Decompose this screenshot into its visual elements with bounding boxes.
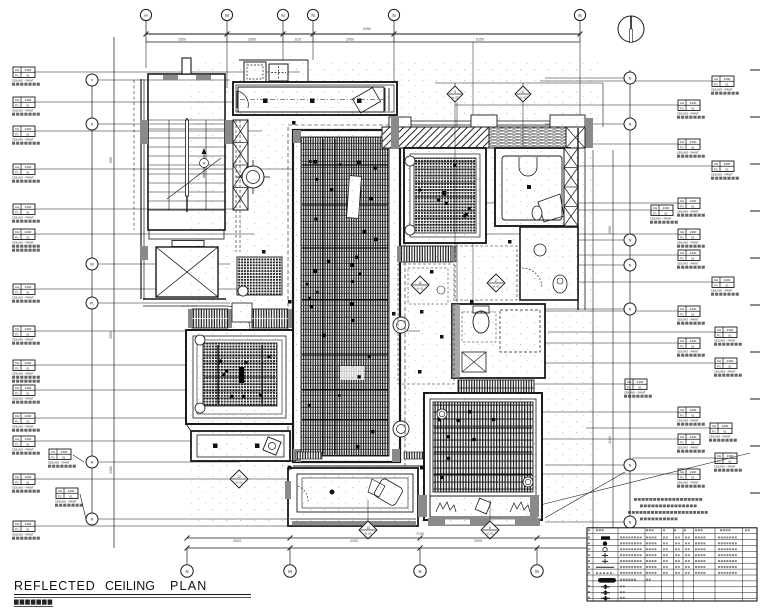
svg-text:CEILING - PAINT: CEILING - PAINT [677,209,699,213]
right vertical leader line [629,70,631,530]
ceiling fan symbol foyer [242,166,264,188]
svg-text:P1: P1 [627,385,631,389]
svg-text:2400: 2400 [25,361,32,365]
svg-text:N: N [629,77,632,81]
ceiling callout right y=338 [678,338,700,349]
scattered downlights [292,121,296,125]
svg-text:CEILING - PAINT: CEILING - PAINT [677,445,699,449]
diagonal leader lines to right callouts [540,453,750,505]
left vertical dim line 1 [91,74,93,522]
svg-text:2400: 2400 [690,339,697,343]
svg-text:CEILING - PAINT: CEILING - PAINT [714,369,736,373]
ceiling callout right y=469 [678,469,700,480]
misc dashed ceiling lines open hall [398,264,454,384]
svg-text:CH: CH [15,285,19,289]
balcony plants left [436,502,456,512]
svg-text:N: N [629,264,632,268]
diamond symbol VL-02 at 490,530 [481,521,499,539]
study door arc left [298,486,308,502]
closet comb below bathroom4 [458,380,534,396]
bedroom2 ceiling hatch [414,158,476,233]
bedroom1 ceiling hatch [203,343,277,406]
svg-text:01: 01 [26,527,30,531]
ceiling callout left y=126 [13,126,35,137]
svg-text:P1: P1 [15,210,19,214]
left leader circle PL y=303 [86,297,98,309]
svg-text:N: N [392,13,395,18]
svg-text:P1: P1 [680,312,684,316]
open hall dashed lines mid [455,246,517,300]
corridor below stair [149,230,224,239]
svg-text:2400: 2400 [68,489,75,493]
grid bubble N x=580 [574,9,585,20]
svg-text:P1: P1 [680,344,684,348]
x-strip right of bath2 [564,148,578,226]
bedroom3 hatch divisions [434,427,532,429]
svg-text:CH: CH [680,140,684,144]
leader bracket line above bedrooms [435,82,603,84]
svg-text:01: 01 [638,385,642,389]
svg-text:P1: P1 [714,283,718,287]
bedroom2 outer wall [404,148,486,243]
svg-text:CEILING: CEILING [105,579,155,593]
svg-text:CEILING - PAINT: CEILING - PAINT [711,288,733,292]
svg-text:N: N [281,13,284,18]
kitchen strip dashed centerline [240,99,384,101]
table lamp symbols bottom rows [588,585,590,587]
living bottom comb marks left [296,452,322,459]
bath2 inner rounded border [502,156,562,220]
svg-text:CH: CH [680,101,684,105]
svg-text:01: 01 [26,210,30,214]
gray jambs bedroom3 [418,495,427,517]
svg-text:01: 01 [26,366,30,370]
svg-text:P1: P1 [15,332,19,336]
study left gray jamb [285,481,291,499]
svg-text:P1: P1 [15,235,19,239]
svg-text:CH: CH [717,359,721,363]
kitchen right end bars [384,88,386,111]
svg-text:2400: 2400 [25,127,32,131]
svg-text:CH: CH [717,328,721,332]
svg-text:P1: P1 [717,364,721,368]
svg-text:P1: P1 [717,333,721,337]
kitchen door arc left [237,91,248,108]
svg-text:P1: P1 [51,455,55,459]
svg-text:2850: 2850 [248,38,256,42]
ceiling callout left y=284 [13,284,35,295]
ceiling callout right y=161 [712,161,734,172]
svg-text:01: 01 [26,332,30,336]
ceiling callout right y=306 [678,306,700,317]
ceiling callout right y=327 [715,327,737,338]
svg-text:CH: CH [15,475,19,479]
svg-text:CH: CH [680,251,684,255]
svg-text:2400: 2400 [722,424,729,428]
svg-text:01: 01 [728,459,732,463]
svg-text:P1: P1 [15,480,19,484]
svg-text:P1: P1 [680,475,684,479]
svg-text:01: 01 [691,256,695,260]
svg-text:1380: 1380 [109,466,113,474]
svg-text:P1: P1 [680,440,684,444]
stair direction diagonal with arrow [167,158,221,199]
svg-text:REFLECTED: REFLECTED [14,579,96,593]
svg-text:01: 01 [26,480,30,484]
svg-text:CEILING - PAINT: CEILING - PAINT [12,240,34,244]
entry door arc [226,306,250,330]
ceiling callout right y=139 [678,139,700,150]
svg-text:CEILING - PAINT: CEILING - PAINT [55,499,77,503]
left leader circle W y=264 [86,258,98,270]
svg-text:01: 01 [691,344,695,348]
living bottom comb marks right [404,452,430,459]
bedroom1 inner border [193,336,286,418]
bedroom1 hatch row lines [204,348,276,350]
bedroom3 outer wall [424,393,542,520]
kitchen downlight squares [263,99,268,104]
bedroom3 ceiling hatch [433,402,533,492]
notes text block right [634,498,637,501]
title underline double [14,594,251,596]
ceiling callout right y=198 [678,198,700,209]
svg-text:2400: 2400 [690,140,697,144]
svg-text:P1: P1 [58,494,62,498]
wardrobe comb left [192,309,228,328]
svg-text:CEILING - PAINT: CEILING - PAINT [677,240,699,244]
ceiling callout left y=229 [13,229,35,240]
svg-text:CH: CH [51,450,55,454]
right leader circle N y=309 [624,303,636,315]
svg-text:01: 01 [664,211,668,215]
svg-text:CEILING - PAINT: CEILING - PAINT [12,337,34,341]
hallway ceiling trough [191,431,290,461]
ceiling callout left y=436 [13,436,35,447]
living room corner wall poche [293,130,301,143]
left leader circle N y=519 [86,513,98,525]
svg-text:1160: 1160 [608,436,612,444]
svg-text:CH: CH [712,424,716,428]
svg-text:CEILING - PAINT: CEILING - PAINT [12,396,34,400]
dim tick [578,32,583,37]
right outer wall top block [577,128,579,310]
svg-text:CH: CH [15,98,19,102]
bathroom4 left gray wall [452,304,460,378]
ceiling callout left y=97 [13,97,35,108]
svg-text:CEILING - PAINT: CEILING - PAINT [624,390,646,394]
ceiling callout right y=277 [712,277,734,288]
svg-text:CEILING - PAINT: CEILING - PAINT [12,108,34,112]
svg-text:3300: 3300 [233,539,241,543]
svg-text:P1: P1 [712,429,716,433]
svg-text:P1: P1 [680,145,684,149]
svg-text:CEILING - PAINT: CEILING - PAINT [677,111,699,115]
svg-text:2400: 2400 [724,162,731,166]
table header marks [588,529,590,531]
ceiling callout right y=229 [678,229,700,240]
living hatch inner beam lines [322,139,324,454]
svg-text:CEILING - PAINT: CEILING - PAINT [714,338,736,342]
study desk rotated shapes [373,477,404,506]
svg-text:CH: CH [680,339,684,343]
shaft x-strip right of stair [233,120,248,210]
svg-text:01: 01 [26,442,30,446]
balcony strip bedroom3 [430,496,537,517]
svg-text:CEILING - PAINT: CEILING - PAINT [12,175,34,179]
svg-text:01: 01 [26,103,30,107]
left leader circle K y=124 [86,118,98,130]
bath3 sink circle [534,244,546,256]
ceiling callout left y=385 [13,385,35,396]
top dimension line [146,33,580,35]
dashed ceiling outline around living [288,125,405,466]
svg-text:CH: CH [15,327,19,331]
dim tick [281,32,286,37]
living hatch white slot detail [347,176,362,219]
svg-text:CH: CH [680,199,684,203]
north arrow symbol [618,16,644,42]
svg-text:01: 01 [69,494,73,498]
svg-text:VL-01: VL-01 [365,532,372,536]
bottom dimension lines [187,537,660,539]
ceiling callout right y=423 [710,423,732,434]
left vertical dim line 2 [113,37,115,548]
dim tick [144,32,149,37]
svg-text:CH: CH [15,127,19,131]
fan symbol living right upper [393,317,409,333]
top small room B with cross [269,64,288,81]
bath3 walls [520,227,578,300]
living room outer wall [293,130,400,462]
wall band diagonal hatch left part [382,127,489,148]
svg-text:2950: 2950 [346,38,354,42]
svg-text:2400: 2400 [25,522,32,526]
svg-text:2400: 2400 [25,98,32,102]
diamond symbol VL-02 at 455,94 [447,86,463,102]
ceiling callout left y=474 [13,474,35,485]
bedroom2 center black square [442,191,447,196]
bedroom1 corner circles [195,335,205,345]
svg-text:890: 890 [109,157,113,163]
hallway downlights [213,444,218,449]
table dark pill legend [598,578,616,583]
svg-text:CH: CH [15,386,19,390]
svg-text:N: N [91,461,94,465]
svg-text:2400: 2400 [25,165,32,169]
stair landing [148,210,225,230]
svg-text:N: N [91,518,94,522]
elevator shaft box [156,247,218,297]
bedroom1 outer wall [186,330,293,424]
svg-text:P1: P1 [680,235,684,239]
svg-text:2400: 2400 [25,230,32,234]
right leader circle N y=465 [624,459,636,471]
bedroom3 fan circle bottom-right [523,477,533,487]
foyer ceiling hatch [237,257,282,295]
svg-text:CH: CH [15,205,19,209]
bedroom2 comb wardrobe below [401,246,453,262]
svg-text:01: 01 [26,73,30,77]
study bottom window band [290,518,416,520]
kitchen rotated counter shape [353,88,381,113]
svg-text:CEILING - PAINT: CEILING - PAINT [677,261,699,265]
ceiling callout left y=413 [13,413,35,424]
svg-text:CEILING - PAINT: CEILING - PAINT [709,434,731,438]
svg-text:01: 01 [691,312,695,316]
stair top chimney bump [182,58,191,74]
ceiling callout right y=407 [678,407,700,418]
svg-text:N: N [185,569,188,574]
svg-text:2400: 2400 [690,199,697,203]
ceiling callout right y=358 [715,358,737,369]
svg-text:7150: 7150 [416,532,424,536]
svg-text:2400: 2400 [25,414,32,418]
bath2 outer wall [495,148,570,226]
grid bubble H x=146 [140,9,151,20]
svg-text:01: 01 [26,419,30,423]
svg-text:2400: 2400 [637,380,644,384]
svg-text:CEILING - PAINT: CEILING - PAINT [48,460,70,464]
ceiling callout right y=100 [678,100,700,111]
ceiling callout left y=326 [13,326,35,337]
kitchen-balcony strip outer [233,82,397,115]
ceiling callout left y=164 [13,164,35,175]
bath3 door arc [522,268,542,288]
dim tick [311,32,316,37]
ceiling callout right y=379 [625,379,647,390]
dim tick [225,32,230,37]
svg-text:N: N [418,569,421,574]
svg-text:01: 01 [691,235,695,239]
svg-text:W: W [90,263,94,267]
svg-text:N: N [629,521,632,525]
svg-text:2400: 2400 [724,77,731,81]
svg-text:1580: 1580 [608,226,612,234]
svg-text:01: 01 [26,132,30,136]
svg-text:CH: CH [680,470,684,474]
svg-text:VL-02: VL-02 [487,532,494,536]
svg-text:2400: 2400 [25,475,32,479]
svg-text:CEILING - PAINT: CEILING - PAINT [12,447,34,451]
svg-text:2400: 2400 [25,437,32,441]
svg-text:2400: 2400 [690,307,697,311]
svg-text:4550: 4550 [109,331,113,339]
wall below elevator [143,298,226,300]
svg-text:01: 01 [691,413,695,417]
svg-text:CEILING - PAINT: CEILING - PAINT [12,295,34,299]
svg-text:P1: P1 [15,442,19,446]
sheet edge tick marks right [750,69,760,71]
svg-text:CH: CH [627,380,631,384]
svg-text:N: N [578,13,581,18]
ceiling callout left y=360 [13,360,35,371]
svg-text:CH: CH [15,230,19,234]
ceiling callout left y=204 [13,204,35,215]
svg-text:CH: CH [714,162,718,166]
svg-text:CH: CH [15,414,19,418]
svg-text:6950: 6950 [363,27,371,31]
diamond symbol VL-02 at 523,94 [515,86,531,102]
living hatch horizontal divisions [302,164,388,166]
svg-text:CH: CH [714,278,718,282]
svg-text:M: M [225,13,229,18]
stair handrail bar [186,120,189,196]
svg-text:01: 01 [728,364,732,368]
corridor dashed lines [235,120,237,252]
grid bubble N x=394 [388,9,399,20]
svg-text:CH: CH [680,435,684,439]
svg-text:P1: P1 [15,527,19,531]
svg-text:01: 01 [691,145,695,149]
stair top wall gray caps [163,75,178,80]
dim tick [392,32,397,37]
svg-text:CH: CH [680,230,684,234]
living hatch white patch [340,366,364,380]
svg-text:01: 01 [723,429,727,433]
wall band gray jambs [391,118,399,148]
svg-text:01: 01 [691,106,695,110]
lintel boxes above wall band [389,117,411,127]
bedroom2 corner circles [405,156,415,166]
svg-text:CEILING - PAINT: CEILING - PAINT [12,78,34,82]
svg-text:01: 01 [725,167,729,171]
ceiling callout left y=67 [13,67,35,78]
svg-text:PLAN: PLAN [170,579,207,593]
svg-text:P1: P1 [680,413,684,417]
diamond symbol VL-01 at 368,530 [359,521,377,539]
fan symbol living right lower [393,421,409,437]
svg-text:N: N [311,13,314,18]
grid bubble N x=313 [307,9,318,20]
svg-text:CEILING - PAINT: CEILING - PAINT [714,464,736,468]
svg-text:2400: 2400 [690,101,697,105]
svg-text:01: 01 [26,235,30,239]
bedroom1 hatch dark clumps [242,395,245,398]
svg-text:H: H [144,13,147,18]
svg-text:CEILING - PAINT: CEILING - PAINT [12,371,34,375]
bath2 toilet [532,206,542,220]
svg-text:2400: 2400 [25,68,32,72]
balcony plants right [510,502,530,512]
svg-text:2400: 2400 [724,278,731,282]
svg-text:Y: Y [91,79,94,83]
diamond symbol VL-03 at 496,283 [487,274,505,292]
svg-text:P1: P1 [680,204,684,208]
svg-text:01: 01 [725,283,729,287]
bath2 corner shower shape [538,194,564,222]
svg-text:P1: P1 [714,82,718,86]
svg-text:2400: 2400 [25,205,32,209]
left leader circle Y y=80 [86,74,98,86]
svg-text:CEILING - PAINT: CEILING - PAINT [677,317,699,321]
right vertical dim lines [592,150,594,556]
svg-text:2650: 2650 [178,38,186,42]
svg-text:PL: PL [90,302,95,306]
ceiling callout right y=250 [678,250,700,261]
diamond symbol VL-01 at 420,285 [411,276,429,294]
svg-text:01: 01 [691,204,695,208]
open hall extra dashed rects [408,268,448,304]
left indented callout 2 [56,488,78,499]
ceiling callout right y=205 [651,205,673,216]
wardrobe comb right [252,309,288,328]
grid bubble M x=227 [221,9,232,20]
svg-text:N: N [629,464,632,468]
svg-text:P1: P1 [15,103,19,107]
bathroom4 toilet [473,311,489,333]
bedroom2 dark clumps [418,189,421,192]
svg-text:P1: P1 [680,256,684,260]
